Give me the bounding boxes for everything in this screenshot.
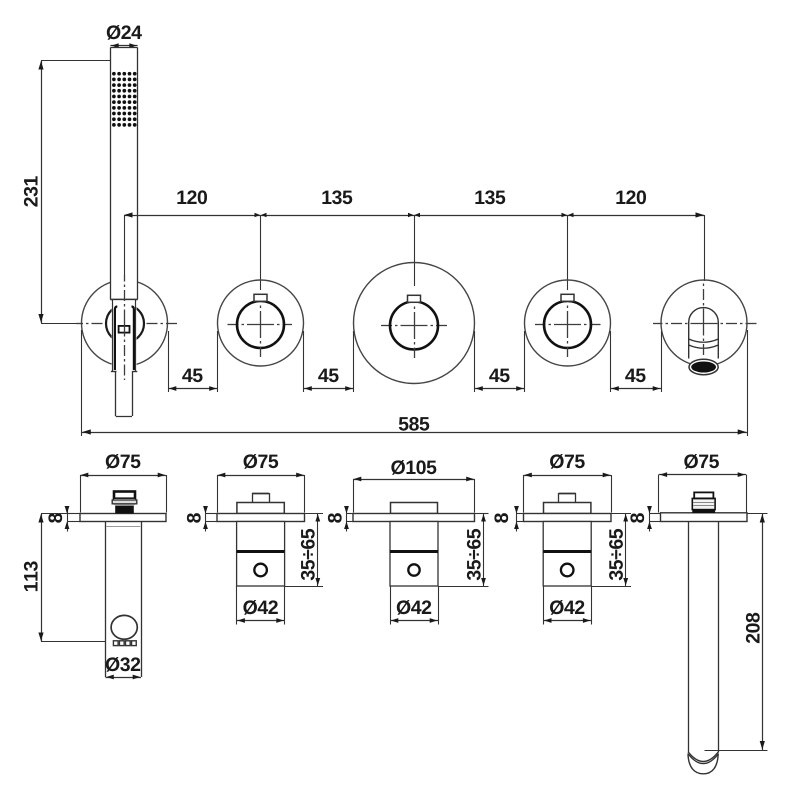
side view 2 in-wall body: [237, 522, 285, 587]
dimension label 135 (left-centre): [322, 190, 352, 204]
side view 2 valve handle: [237, 493, 284, 514]
wall plate 2 with valve handle (front): [218, 280, 304, 366]
side view 4 dimension 35÷65: [591, 514, 631, 587]
side view 1 wall plate: [80, 514, 166, 522]
side view 5 dimension 8 (plate thickness): [630, 506, 660, 532]
side view 1 holder knob: [112, 492, 137, 514]
side view 2 wall plate: [217, 514, 305, 522]
side view 4 dimension 8 (plate thickness): [494, 506, 523, 532]
dimension 231 vertical (hand shower height): [24, 61, 110, 324]
spout centreline: [703, 284, 705, 356]
wall plate 5 (spout rosette, front): [661, 280, 747, 366]
spout nose (front, foreshortened): [689, 308, 719, 375]
side view 1 dimension 8 (plate thickness): [48, 506, 80, 532]
side view 5 spout stub: [692, 492, 715, 513]
side view 4 wall plate: [524, 514, 612, 522]
dimension label 135 (right-centre): [475, 190, 505, 204]
side view 5 wall plate: [661, 513, 748, 522]
dimension 45 (valve 4 to spout): [611, 331, 662, 392]
side view 3 dimension 8 (plate thickness): [328, 506, 353, 532]
wall plate 1 (hand shower holder rosette, front): [82, 280, 168, 366]
dimension 45 (holder to valve 2): [168, 331, 218, 392]
side view 3 in-wall body: [390, 522, 438, 587]
side view 1 shower wand hanging (Ø32 tube): [106, 522, 142, 678]
side view 3 dimension Ø105: [353, 460, 475, 513]
side view 3 dimension Ø42: [390, 586, 439, 625]
side view 1 holder ring: [111, 615, 137, 639]
dimension label 120 (right): [616, 190, 646, 204]
side view 3 thermostat handle: [391, 503, 438, 514]
side view 2 dimension 35÷65: [285, 514, 323, 587]
dimension 585 overall width: [82, 330, 748, 436]
side view 3 dimension 35÷65: [438, 514, 489, 587]
hand shower wand body: [110, 48, 137, 300]
side view 4 in-wall body: [543, 522, 591, 587]
side view 1 dimension Ø32: [106, 657, 142, 679]
side view 2 dimension 8 (plate thickness): [187, 506, 217, 532]
horizontal centreline through wall plates: [41, 324, 757, 326]
wall plate 3 thermostat Ø105 with handle (front): [354, 263, 475, 384]
side view 4 dimension Ø75: [524, 454, 612, 513]
side view 1 dimension 113: [24, 514, 106, 642]
dimension 45 (thermostat to valve 4): [475, 331, 525, 392]
hand shower wand centreline: [124, 275, 126, 380]
side view 3 wall plate: [353, 514, 475, 522]
side view 5 dimension 208: [705, 514, 768, 751]
wall plate 4 with valve handle (front): [525, 280, 611, 366]
side view 5 spout tube: [688, 522, 719, 774]
hand shower holder clip detail: [119, 326, 130, 333]
hand shower dimension Ø24: [107, 25, 142, 48]
dimension label 120 (left): [177, 190, 207, 204]
dimension 45 (valve 2 to thermostat): [304, 331, 354, 392]
hand shower holder ball: [106, 300, 144, 371]
side view 4 valve handle: [544, 493, 591, 514]
hand shower handle tail: [116, 371, 133, 417]
hand shower holder fork: [111, 300, 137, 372]
side view 2 dimension Ø42: [237, 586, 285, 625]
side view 2 dimension Ø75: [217, 454, 305, 513]
dimension chain 120/135/135/120 top line: [124, 212, 705, 290]
side view 1 holder teeth: [113, 641, 136, 646]
side view 1 dimension Ø75: [80, 454, 167, 513]
side view 5 dimension Ø75: [659, 454, 747, 513]
hand shower spray face nozzles: [112, 72, 136, 127]
side view 4 dimension Ø42: [543, 586, 591, 625]
